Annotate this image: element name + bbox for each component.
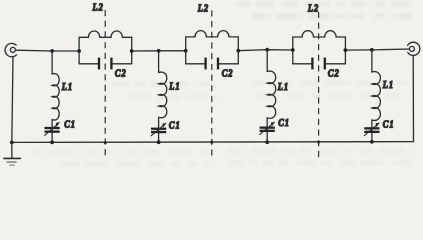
inductor L2 (two humps), tank 2 (186, 31, 239, 37)
tank 3: left side wire (292, 37, 294, 64)
wire: coil through trimmer to rail (branch 2) (158, 118, 160, 143)
wire: tank3 to output terminal (345, 49, 409, 50)
tank 1: left side wire (78, 37, 80, 64)
svg-text:C1: C1 (64, 119, 76, 130)
svg-text:L1: L1 (382, 79, 394, 90)
inductor L1 (branch 4) (372, 72, 380, 121)
wire: left vertical (input down to rail) (12, 57, 13, 143)
C1 trimmer arrow (branch 3) (260, 122, 275, 134)
capacitor C2, tank 3 (293, 63, 312, 65)
node: junction dot at top of branch 4 (370, 48, 374, 52)
inductor L2 (two humps), tank 3 (293, 31, 346, 37)
node: junction dot at rail (branch 1) (50, 140, 54, 144)
svg-text:L1: L1 (61, 81, 73, 92)
inductor L1 (branch 2) (159, 72, 167, 118)
svg-text:C2: C2 (328, 68, 340, 79)
svg-text:L2: L2 (307, 3, 319, 14)
svg-text:C1: C1 (169, 120, 181, 131)
tank 2: right side wire (237, 37, 239, 64)
tank 3: right side wire (344, 37, 346, 64)
node: junction dot right of tank 3 (344, 48, 348, 52)
node: junction dot left of tank 2 (184, 49, 188, 53)
node: junction dot right of tank 1 (130, 49, 134, 53)
node: junction dot at rail (branch 3) (265, 140, 269, 144)
C1 trimmer arrow (branch 1) (45, 123, 60, 136)
node: dot where partition 2 meets rail (210, 141, 213, 144)
wire: tank1 to tank2 (132, 50, 186, 52)
capacitor C1 trimmer plates (branch 4) (364, 127, 379, 129)
shield partition dashed line 1 (104, 11, 106, 160)
svg-text:L1: L1 (168, 81, 180, 92)
wire: input terminal to tank1 (15, 49, 79, 52)
svg-text:L2: L2 (197, 3, 209, 14)
node: junction dot at rail (branch 2) (157, 140, 161, 144)
wire: tank2 to tank3 (238, 49, 292, 52)
node: dot where partition 1 meets rail (104, 141, 107, 144)
shield partition dashed line 2 (211, 11, 213, 161)
tank 2: left side wire (185, 37, 187, 64)
wire: coil through trimmer to rail (branch 3) (266, 118, 268, 142)
svg-text:C2: C2 (115, 68, 127, 79)
wire: branch 1 top vertical (51, 51, 53, 74)
inductor L1 (branch 3) (267, 71, 275, 118)
wire: coil through trimmer to rail (branch 4) (371, 120, 373, 142)
node: junction dot bottom-left corner (10, 141, 14, 145)
faint page bleed-through texture (236, 1, 413, 19)
node: junction dot at rail (branch 4) (370, 140, 374, 144)
capacitor C1 trimmer plates (branch 2) (151, 128, 166, 130)
wire: branch 4 top vertical (371, 50, 373, 72)
wire: coil through trimmer to rail (branch 1) (51, 120, 53, 143)
capacitor C1 trimmer plates (branch 3) (260, 127, 275, 129)
shield partition dashed line 3 (318, 12, 320, 159)
svg-text:L2: L2 (92, 2, 104, 13)
node: junction dot left of tank 1 (77, 49, 81, 53)
input connector outer circle (5, 43, 16, 56)
node: junction dot at top of branch 3 (265, 48, 269, 52)
output connector outer circle (408, 42, 420, 55)
capacitor C1 trimmer plates (branch 1) (45, 127, 60, 129)
capacitor C2, tank 2 (186, 63, 205, 65)
wire: branch 2 top vertical (158, 51, 160, 73)
node: junction dot at top of branch 2 (157, 49, 161, 53)
ground symbol (4, 142, 21, 165)
svg-text:L1: L1 (277, 82, 289, 93)
inductor L1 (branch 1) (52, 74, 59, 120)
C1 trimmer arrow (branch 2) (151, 123, 166, 136)
svg-text:C1: C1 (278, 117, 290, 128)
wire: branch 3 top vertical (266, 50, 268, 72)
input connector inner circle (10, 47, 15, 52)
node: junction dot at top of branch 1 (50, 49, 54, 53)
svg-text:C2: C2 (222, 68, 234, 79)
tank 1: right side wire (131, 37, 133, 64)
node: dot where partition 3 meets rail (317, 141, 320, 144)
output connector inner circle (409, 46, 414, 51)
capacitor C2, tank 1 (79, 63, 98, 65)
inductor L2 (two humps), tank 1 (79, 31, 132, 37)
C1 trimmer arrow (branch 4) (364, 123, 379, 136)
node: junction dot left of tank 3 (291, 48, 295, 52)
wire: bottom ground rail (12, 141, 414, 144)
wire: right vertical (output down to rail) (412, 56, 414, 142)
svg-text:C1: C1 (383, 119, 395, 130)
node: junction dot right of tank 2 (236, 49, 240, 53)
